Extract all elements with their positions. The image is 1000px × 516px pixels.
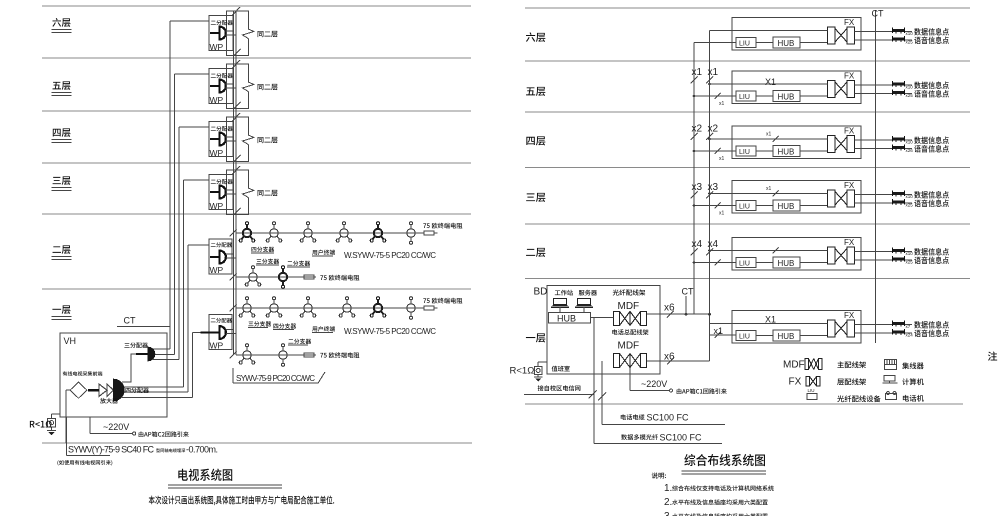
svg-text:x1: x1 — [719, 211, 725, 217]
svg-text:x26: x26 — [906, 148, 914, 153]
svg-text:W.SYWV-75-5 PC20 CC/WC: W.SYWV-75-5 PC20 CC/WC — [344, 327, 436, 336]
svg-text:HUB: HUB — [557, 313, 576, 323]
svg-text:x10: x10 — [906, 194, 914, 199]
svg-text:x1: x1 — [708, 67, 719, 78]
svg-text:LIU: LIU — [739, 204, 750, 211]
svg-text:x1: x1 — [766, 186, 772, 192]
svg-text:FX: FX — [844, 127, 855, 136]
svg-text:HUB: HUB — [778, 39, 795, 48]
svg-text:WP: WP — [210, 201, 224, 211]
svg-text:R<1Ω: R<1Ω — [510, 366, 535, 377]
svg-text:x1: x1 — [719, 156, 725, 162]
svg-text:MDF: MDF — [783, 360, 805, 371]
svg-text:x1: x1 — [766, 132, 772, 138]
svg-text:SYWV(Y)-75-9 SC40 FC: SYWV(Y)-75-9 SC40 FC — [68, 445, 155, 455]
svg-text:MDF: MDF — [618, 340, 640, 351]
svg-text:x25: x25 — [906, 40, 914, 45]
svg-text:CT: CT — [872, 9, 884, 19]
svg-text:x10: x10 — [906, 251, 914, 256]
svg-text:x10: x10 — [906, 31, 914, 36]
svg-text:-0.700m.: -0.700m. — [186, 445, 218, 455]
svg-text:~220V: ~220V — [103, 422, 129, 432]
svg-text:x7: x7 — [906, 324, 911, 329]
svg-text:x10: x10 — [906, 140, 914, 145]
svg-text:FX: FX — [844, 238, 855, 247]
svg-text:WP: WP — [210, 95, 224, 105]
svg-text:SC100 FC: SC100 FC — [660, 432, 703, 442]
svg-text:x1: x1 — [692, 67, 703, 78]
svg-text:HUB: HUB — [778, 92, 795, 101]
svg-text:x4: x4 — [708, 239, 719, 250]
svg-text:x6: x6 — [664, 352, 675, 363]
svg-text:FX: FX — [844, 311, 855, 320]
svg-text:LIU: LIU — [739, 261, 750, 268]
svg-text:HUB: HUB — [778, 147, 795, 156]
svg-text:x3: x3 — [708, 182, 719, 193]
svg-text:LIU: LIU — [808, 388, 815, 393]
svg-text:WP: WP — [210, 340, 224, 350]
svg-text:x25: x25 — [906, 260, 914, 265]
svg-text:x24: x24 — [906, 333, 914, 338]
svg-text:x1: x1 — [714, 326, 724, 336]
svg-text:1.: 1. — [664, 483, 672, 494]
svg-text:2.: 2. — [664, 497, 672, 508]
svg-text:MDF: MDF — [618, 301, 640, 312]
svg-text:FX: FX — [844, 72, 855, 81]
svg-text:SYWV-75-9 PC20 CC/WC: SYWV-75-9 PC20 CC/WC — [236, 374, 315, 383]
svg-text:LIU: LIU — [739, 41, 750, 48]
svg-text:X1: X1 — [765, 77, 776, 87]
svg-text:FX: FX — [789, 377, 802, 388]
svg-text:CT: CT — [124, 316, 136, 326]
svg-text:HUB: HUB — [778, 202, 795, 211]
svg-text:SC100 FC: SC100 FC — [647, 412, 690, 422]
svg-text:WP: WP — [210, 42, 224, 52]
svg-text:VH: VH — [64, 336, 77, 346]
svg-text:WP: WP — [210, 265, 224, 275]
svg-text:CT: CT — [682, 287, 694, 297]
svg-text:x6: x6 — [664, 303, 675, 314]
svg-text:FX: FX — [844, 181, 855, 190]
svg-text:x1: x1 — [719, 101, 725, 107]
svg-text:BD: BD — [534, 287, 548, 298]
svg-text:W.SYWV-75-5 PC20 CC/WC: W.SYWV-75-5 PC20 CC/WC — [344, 251, 436, 260]
svg-text:LIU: LIU — [739, 149, 750, 156]
svg-text:~220V: ~220V — [641, 379, 667, 389]
svg-text:x25: x25 — [906, 93, 914, 98]
svg-text:HUB: HUB — [778, 332, 795, 341]
svg-text:x10: x10 — [906, 85, 914, 90]
svg-text:HUB: HUB — [778, 259, 795, 268]
svg-text:X1: X1 — [765, 315, 776, 325]
svg-text:WP: WP — [210, 148, 224, 158]
svg-text:x4: x4 — [692, 239, 703, 250]
svg-text:x3: x3 — [692, 182, 703, 193]
svg-text:LIU: LIU — [739, 94, 750, 101]
svg-text:FX: FX — [844, 18, 855, 27]
svg-text:x2: x2 — [708, 124, 719, 135]
svg-text:x2: x2 — [692, 124, 703, 135]
svg-text:x25: x25 — [906, 203, 914, 208]
svg-text:3.: 3. — [664, 511, 672, 516]
svg-text:LIU: LIU — [739, 334, 750, 341]
